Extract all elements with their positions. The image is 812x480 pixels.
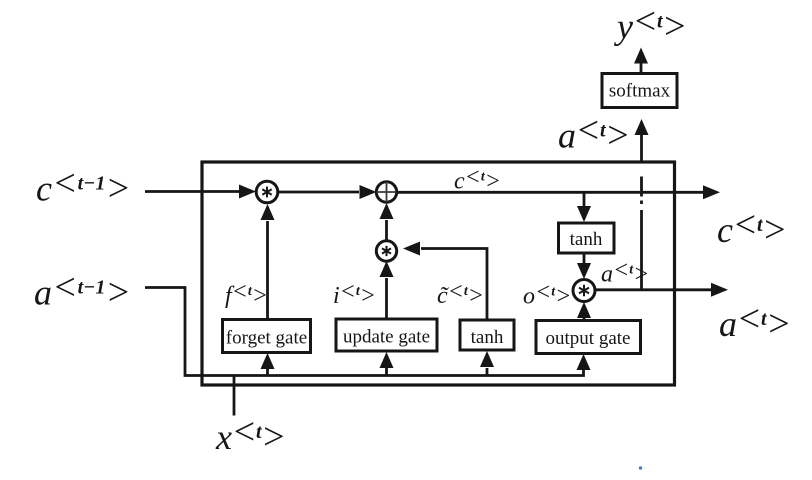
update gate box: [336, 319, 437, 351]
wire a<t-1> entry with corner and bottom bus: [145, 288, 584, 376]
svg-text:x<t>: x<t>: [215, 411, 286, 458]
label output gate: [546, 328, 631, 349]
label a<t-1>: [34, 267, 131, 314]
arrowhead into output multiply: [577, 263, 591, 279]
arrowhead into candidate multiply: [403, 242, 420, 256]
wire a branch dash-dot: [640, 177, 643, 205]
label forget gate: [226, 328, 307, 349]
svg-text:update gate: update gate: [343, 327, 430, 348]
svg-text:tanh: tanh: [471, 327, 504, 348]
arrowhead into output multiply from gate: [577, 302, 591, 318]
wire c-line to right exit: [396, 191, 703, 194]
label a<t> right output: [719, 298, 791, 345]
svg-text:a<t>: a<t>: [601, 258, 649, 288]
wire forget gate to multiply node: [266, 221, 269, 320]
output gate box: [536, 321, 641, 354]
svg-text:softmax: softmax: [609, 81, 671, 102]
label i<t>: [333, 279, 376, 309]
wire bus branch to forget gate: [266, 369, 269, 376]
arrowhead into multiply node: [239, 185, 256, 199]
label c<t-1>: [36, 163, 131, 210]
candidate multiply node circle: [376, 241, 396, 261]
wire a branch up to softmax: [640, 134, 643, 164]
arrowhead c<t> exit: [703, 185, 720, 199]
svg-text:c<t−1>: c<t−1>: [36, 163, 131, 210]
label softmax: [609, 81, 671, 102]
forget gate box: [223, 320, 311, 353]
plus node circle: [376, 182, 396, 202]
label c<t> on cell line: [454, 165, 501, 195]
svg-text:a<t−1>: a<t−1>: [34, 267, 131, 314]
arrowhead into output gate from bus: [577, 354, 591, 370]
label tanh candidate: [471, 327, 504, 348]
wire candidate multiply to plus node: [385, 220, 388, 242]
label a<t> above box: [558, 110, 630, 157]
wire bus branch to update gate: [385, 368, 388, 376]
svg-text:output gate: output gate: [546, 328, 631, 349]
wire a branch vertical solid: [640, 210, 643, 290]
label y<t>: [614, 1, 687, 48]
label x<t>: [215, 411, 286, 458]
svg-text:c<t>: c<t>: [717, 204, 787, 251]
svg-text:f<t>: f<t>: [225, 279, 268, 309]
arrowhead into candidate multiply from gate: [380, 261, 394, 277]
output multiply node circle: [573, 280, 595, 302]
wire a-line to right exit: [595, 288, 711, 291]
svg-text:o<t>: o<t>: [523, 280, 571, 310]
tanh box (candidate): [460, 320, 514, 350]
label f<t>: [225, 279, 268, 309]
wire down from c-line to tanh: [583, 193, 586, 207]
label o<t>: [523, 280, 571, 310]
svg-text:c̃<t>: c̃<t>: [437, 279, 484, 309]
LSTM cell outer box: [202, 162, 675, 385]
arrowhead into candidate tanh from bus: [480, 351, 494, 367]
softmax box: [602, 74, 677, 108]
arrowhead into plus node: [360, 185, 377, 199]
svg-text:y<t>: y<t>: [614, 1, 687, 48]
arrowhead into update gate from bus: [380, 352, 394, 368]
tanh box (cell output): [559, 223, 615, 253]
arrowhead into plus node from below: [380, 203, 394, 219]
arrowhead toward y<t>: [634, 48, 648, 64]
wire tanh to output multiply: [583, 253, 586, 263]
arrowhead into multiply node from gate: [261, 204, 275, 220]
label tanh cell output: [570, 229, 603, 250]
wire softmax to y: [640, 63, 643, 73]
wire x<t> input stub: [233, 376, 236, 416]
label update gate: [343, 327, 430, 348]
blue dot artifact: [639, 466, 642, 469]
wire output gate to output multiply: [583, 317, 586, 320]
wire c-line entry from c<t-1>: [145, 190, 239, 193]
svg-text:tanh: tanh: [570, 229, 603, 250]
wire bus branch to candidate tanh: [486, 368, 489, 376]
label c-tilde<t>: [437, 279, 484, 309]
svg-text:a<t>: a<t>: [558, 110, 630, 157]
arrowhead a<t> exit: [711, 283, 728, 297]
wire tanh(candidate) feed, right-angle: [421, 249, 487, 321]
arrowhead into forget gate from bus: [261, 353, 275, 369]
svg-text:i<t>: i<t>: [333, 279, 376, 309]
svg-text:c<t>: c<t>: [454, 165, 501, 195]
arrowhead up toward softmax: [635, 119, 649, 135]
label c<t> right output: [717, 204, 787, 251]
svg-text:a<t>: a<t>: [719, 298, 791, 345]
wire multiply to plus node: [278, 191, 359, 194]
wire update gate to candidate multiply: [385, 278, 388, 319]
multiply node (forget) circle: [256, 181, 278, 203]
label a<t> at output multiply: [601, 258, 649, 288]
arrowhead into tanh: [577, 206, 591, 222]
svg-text:forget gate: forget gate: [226, 328, 307, 349]
